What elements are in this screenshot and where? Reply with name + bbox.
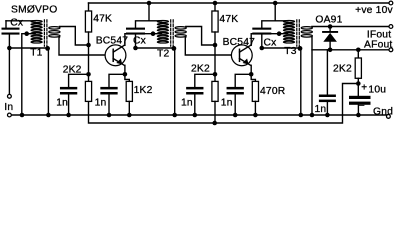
svg-text:SMØVPO: SMØVPO <box>11 5 57 16</box>
svg-text:47K: 47K <box>219 14 238 25</box>
svg-text:T3: T3 <box>284 46 296 57</box>
svg-text:10u: 10u <box>368 85 386 96</box>
svg-text:2K2: 2K2 <box>333 64 352 75</box>
svg-text:1n: 1n <box>315 104 327 115</box>
svg-text:AFout: AFout <box>364 39 392 50</box>
svg-text:–: – <box>359 100 365 111</box>
svg-text:Gnd: Gnd <box>373 106 393 117</box>
svg-text:2K2: 2K2 <box>191 64 210 75</box>
svg-text:OA91: OA91 <box>315 15 342 26</box>
svg-text:Cx: Cx <box>264 37 278 48</box>
svg-text:1n: 1n <box>221 97 233 108</box>
svg-text:Cx: Cx <box>133 36 147 47</box>
svg-text:Cx: Cx <box>10 18 24 29</box>
svg-text:1n: 1n <box>56 97 68 108</box>
svg-text:470R: 470R <box>260 86 285 97</box>
svg-text:47K: 47K <box>93 13 112 24</box>
svg-text:T2: T2 <box>157 48 169 59</box>
svg-text:BC547: BC547 <box>96 36 129 47</box>
svg-text:In: In <box>4 102 13 113</box>
svg-text:+: + <box>361 83 367 94</box>
svg-text:BC547: BC547 <box>223 37 256 48</box>
svg-text:1K2: 1K2 <box>134 85 153 96</box>
svg-text:1n: 1n <box>95 97 107 108</box>
svg-text:+ve 10v: +ve 10v <box>355 5 393 16</box>
svg-text:T1: T1 <box>30 48 42 59</box>
svg-text:1n: 1n <box>181 97 193 108</box>
